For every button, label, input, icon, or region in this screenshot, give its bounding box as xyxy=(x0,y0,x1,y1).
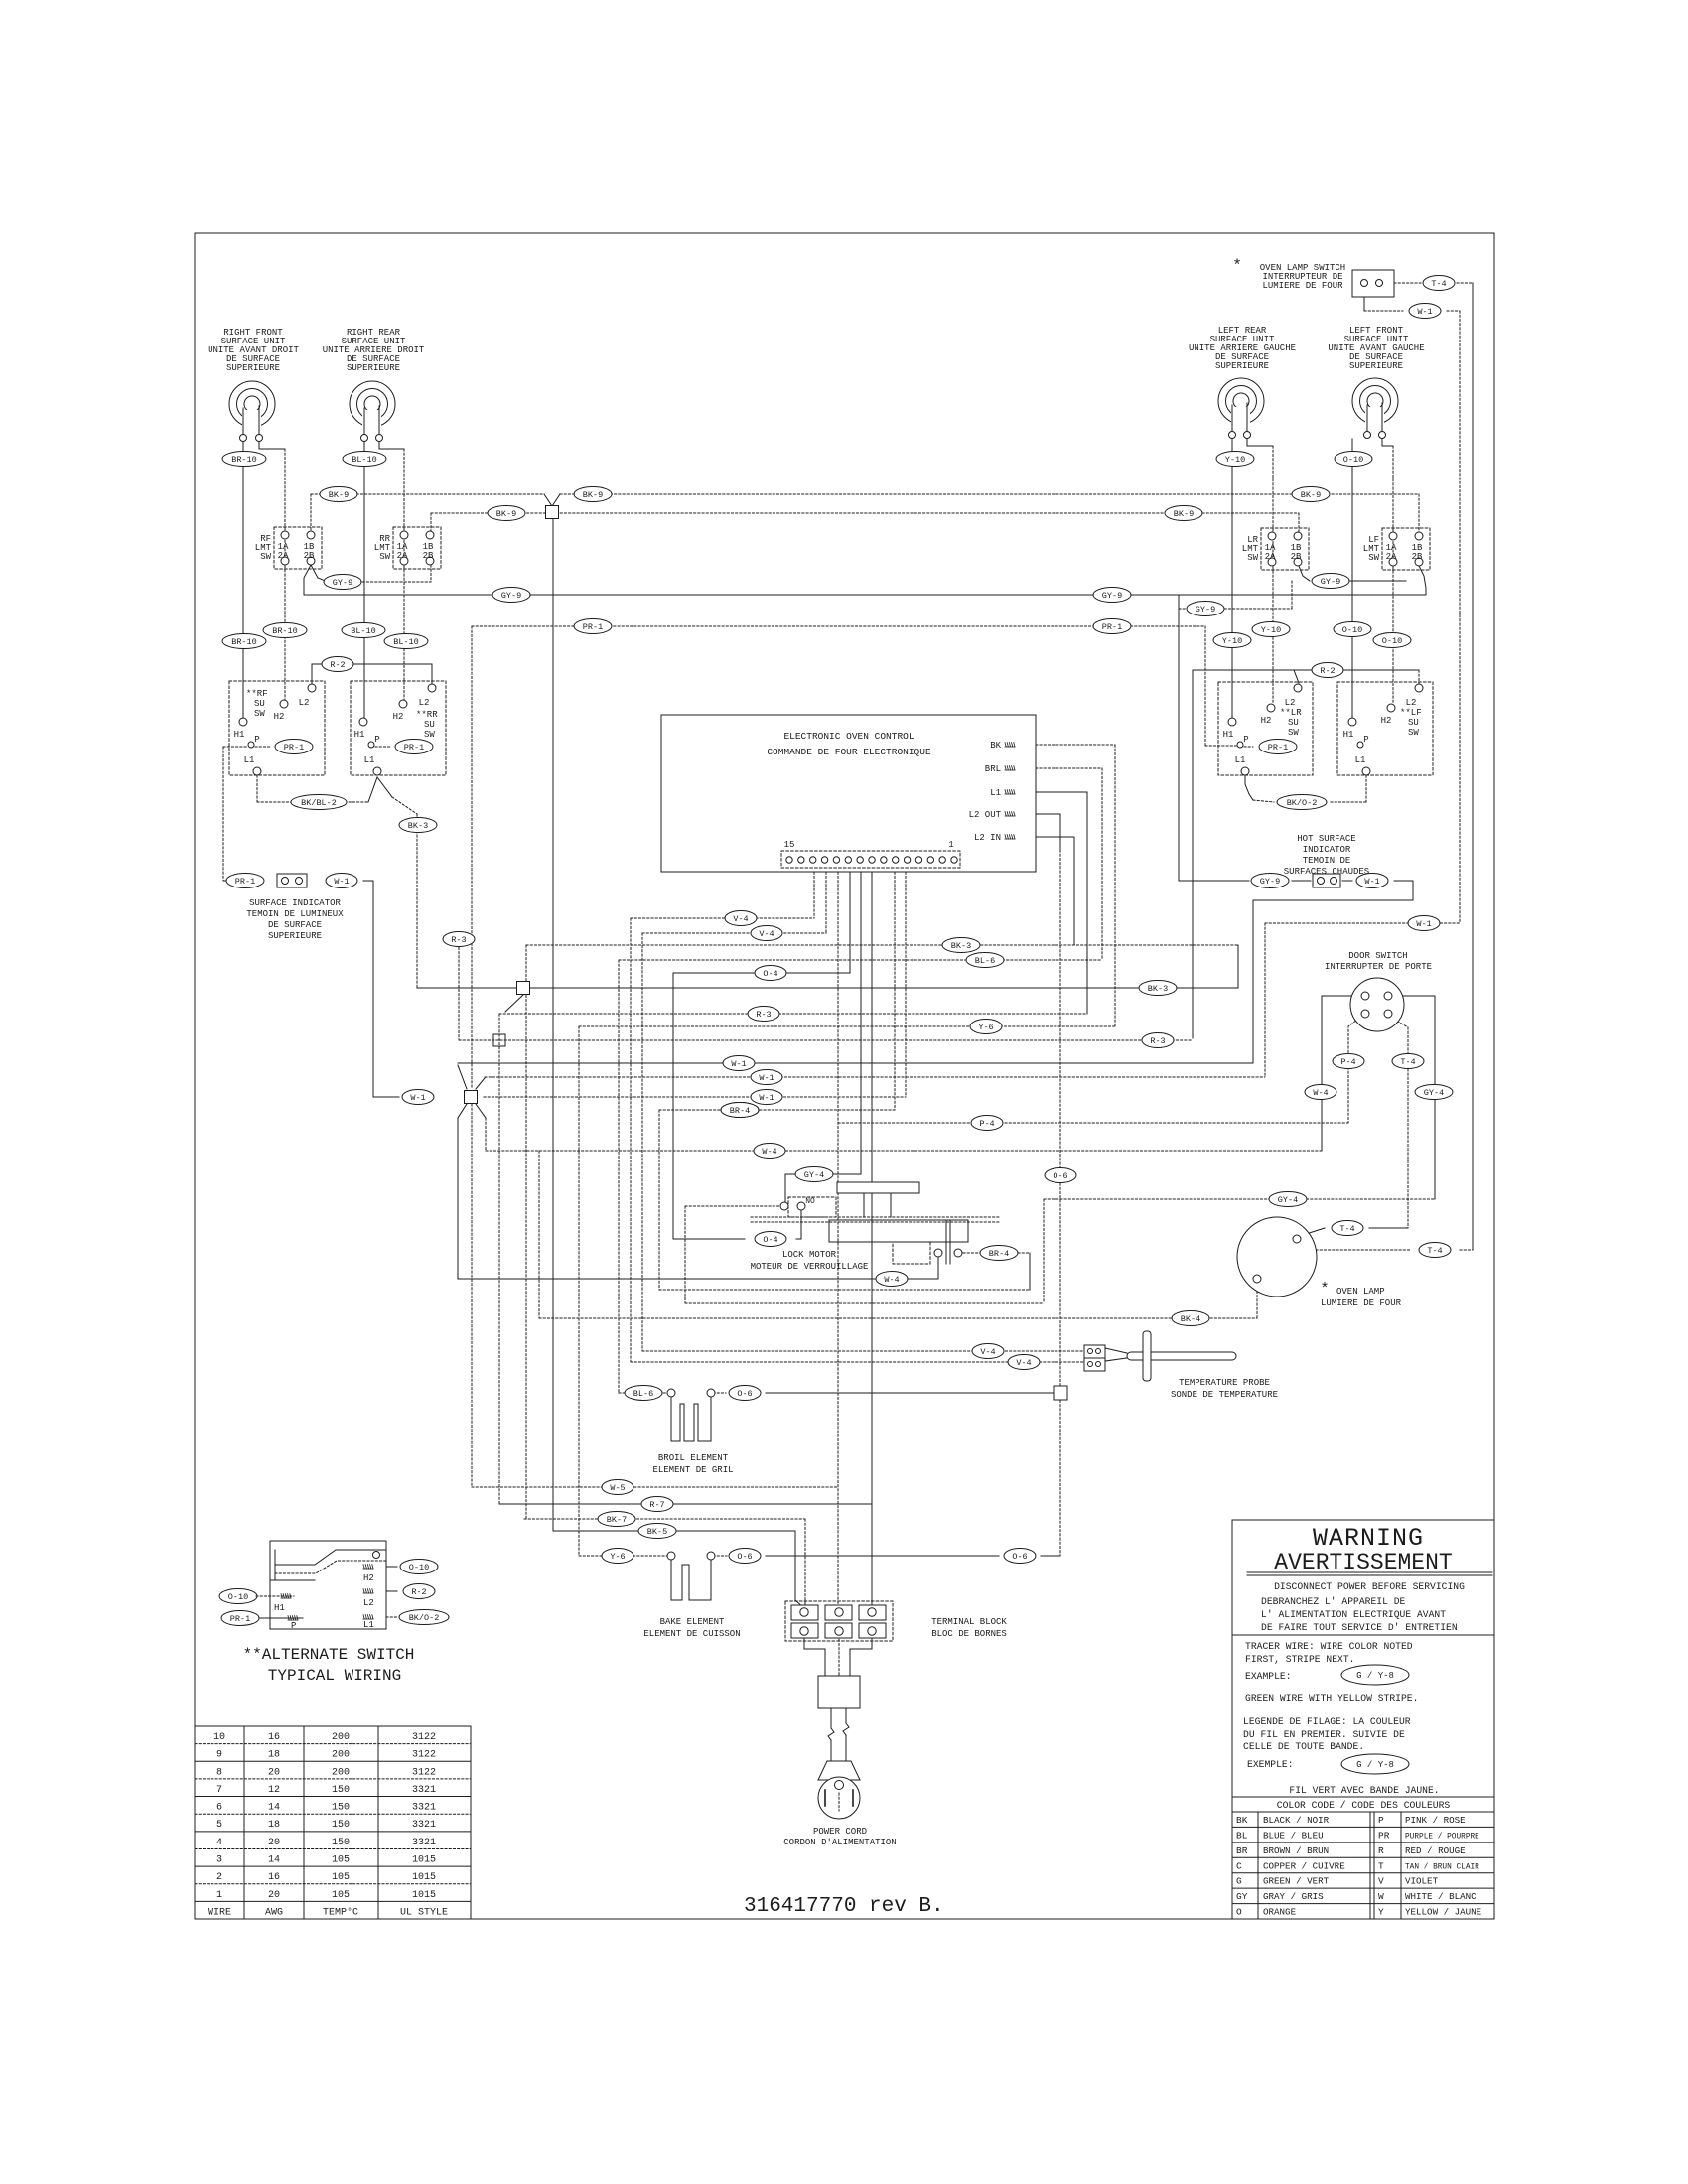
svg-text:ELEMENT DE CUISSON: ELEMENT DE CUISSON xyxy=(643,1629,740,1639)
svg-text:INDICATOR: INDICATOR xyxy=(1303,845,1351,855)
svg-text:TEMOIN DE: TEMOIN DE xyxy=(1303,856,1351,866)
ovals bottom rows xyxy=(602,1480,633,1495)
svg-text:GY-9: GY-9 xyxy=(333,578,352,588)
svg-text:BK/O-2: BK/O-2 xyxy=(409,1613,440,1623)
wire EOC pin L2 IN xyxy=(1019,836,1074,838)
wire O-4 at lock motor xyxy=(673,1238,745,1240)
oval BK-9 b xyxy=(574,487,612,502)
oval BR-10 c xyxy=(222,634,266,649)
svg-text:G: G xyxy=(1236,1876,1242,1887)
svg-text:SW: SW xyxy=(254,709,265,719)
svg-text:1015: 1015 xyxy=(412,1890,436,1901)
svg-text:SUPERIEURE: SUPERIEURE xyxy=(1215,361,1269,371)
oval GY-9 b xyxy=(492,588,530,603)
svg-text:3122: 3122 xyxy=(412,1750,436,1761)
svg-text:L1: L1 xyxy=(1355,755,1366,765)
svg-text:16: 16 xyxy=(268,1872,280,1883)
svg-text:2B: 2B xyxy=(423,551,434,561)
svg-text:R-2: R-2 xyxy=(330,660,345,670)
svg-text:200: 200 xyxy=(332,1732,350,1743)
svg-text:3321: 3321 xyxy=(412,1785,436,1796)
svg-text:W-1: W-1 xyxy=(1364,877,1379,887)
svg-text:BK-9: BK-9 xyxy=(496,509,516,519)
svg-text:Y-10: Y-10 xyxy=(1261,625,1281,635)
svg-text:P-4: P-4 xyxy=(979,1119,994,1129)
LR limit switch xyxy=(1261,528,1309,570)
svg-text:PR-1: PR-1 xyxy=(583,622,603,632)
svg-text:GREEN WIRE WITH YELLOW STRIPE.: GREEN WIRE WITH YELLOW STRIPE. xyxy=(1245,1693,1418,1704)
svg-text:3321: 3321 xyxy=(412,1838,436,1848)
alternate switch legend xyxy=(270,1541,386,1629)
svg-text:BR-4: BR-4 xyxy=(989,1249,1009,1259)
svg-text:Y-10: Y-10 xyxy=(1222,636,1242,646)
svg-text:V: V xyxy=(1378,1876,1384,1887)
oval GY-9 a xyxy=(324,575,361,590)
svg-text:YELLOW / JAUNE: YELLOW / JAUNE xyxy=(1405,1907,1482,1918)
svg-text:P: P xyxy=(291,1621,296,1631)
wire W-4 solid row to lock motor xyxy=(458,1278,938,1280)
svg-text:W-1: W-1 xyxy=(1416,919,1431,929)
svg-text:BR-4: BR-4 xyxy=(730,1106,750,1116)
svg-text:BK: BK xyxy=(1236,1815,1248,1826)
svg-text:P-4: P-4 xyxy=(1340,1057,1355,1067)
svg-text:NO: NO xyxy=(805,1197,815,1206)
svg-text:**RR: **RR xyxy=(416,710,438,720)
wire BK-4 row from oven lamp xyxy=(1256,1283,1258,1318)
wire gauge table xyxy=(195,1726,471,1919)
svg-text:14: 14 xyxy=(268,1854,280,1865)
svg-text:P: P xyxy=(254,735,259,745)
svg-text:FIRST, STRIPE NEXT.: FIRST, STRIPE NEXT. xyxy=(1245,1654,1354,1665)
svg-text:**LR: **LR xyxy=(1280,708,1302,718)
svg-text:TRACER WIRE: WIRE COLOR NOTED: TRACER WIRE: WIRE COLOR NOTED xyxy=(1245,1641,1413,1652)
svg-text:2B: 2B xyxy=(1412,552,1423,562)
bake element xyxy=(602,1549,633,1564)
svg-text:316417770 rev B.: 316417770 rev B. xyxy=(744,1895,944,1918)
oval GY-4 row xyxy=(1269,1192,1307,1207)
svg-text:DE SURFACE: DE SURFACE xyxy=(268,920,322,930)
svg-text:TERMINAL BLOCK: TERMINAL BLOCK xyxy=(931,1617,1007,1627)
svg-text:R-3: R-3 xyxy=(756,1010,771,1020)
oval O-4 lock xyxy=(755,1232,786,1247)
svg-text:200: 200 xyxy=(332,1750,350,1761)
svg-text:R-3: R-3 xyxy=(451,935,466,945)
lock motor M1 xyxy=(837,1182,919,1193)
wire W-1 dotted row mid xyxy=(485,1076,1265,1078)
svg-text:O-10: O-10 xyxy=(1343,455,1363,465)
wire W-1 right chain via hot surface indicator xyxy=(1252,900,1254,1063)
svg-text:WARNING: WARNING xyxy=(1313,1524,1424,1553)
oval BK-9 c xyxy=(1292,487,1330,502)
oval BK/O-2 alt xyxy=(399,1610,449,1625)
wire W-5 row xyxy=(472,1486,838,1488)
svg-text:150: 150 xyxy=(332,1785,350,1796)
svg-text:2A: 2A xyxy=(278,551,289,561)
svg-text:O: O xyxy=(1236,1907,1242,1918)
oval BK/BL-2 xyxy=(291,795,347,810)
svg-text:BK-3: BK-3 xyxy=(951,941,971,951)
oval T-4 door xyxy=(1392,1054,1424,1069)
svg-text:W-1: W-1 xyxy=(334,877,349,887)
oval BK-9 e xyxy=(1165,506,1202,521)
oval O-10 alt left xyxy=(219,1589,257,1604)
svg-text:W-1: W-1 xyxy=(1417,307,1432,317)
temperature probe xyxy=(972,1344,1004,1359)
svg-text:H1: H1 xyxy=(274,1603,285,1613)
svg-text:GY-4: GY-4 xyxy=(1278,1195,1298,1205)
wire GY-4 to lock motor xyxy=(785,1173,861,1175)
svg-text:W-1: W-1 xyxy=(759,1093,774,1103)
svg-text:TEMP°C: TEMP°C xyxy=(323,1906,358,1918)
svg-text:18: 18 xyxy=(268,1750,280,1761)
svg-text:TEMPERATURE PROBE: TEMPERATURE PROBE xyxy=(1179,1378,1270,1388)
svg-text:T-4: T-4 xyxy=(1400,1057,1415,1067)
wire terminal block to power cord xyxy=(803,1635,805,1649)
oval PR-1 in RF box xyxy=(275,740,313,754)
oval Y-10 c xyxy=(1213,633,1251,648)
svg-text:L1: L1 xyxy=(364,755,375,765)
svg-text:DEBRANCHEZ L' APPAREIL DE: DEBRANCHEZ L' APPAREIL DE xyxy=(1261,1596,1406,1607)
svg-text:PR: PR xyxy=(1378,1830,1390,1841)
svg-text:OVEN LAMP: OVEN LAMP xyxy=(1336,1287,1385,1297)
svg-text:BR-10: BR-10 xyxy=(272,626,298,636)
svg-text:DE FAIRE TOUT SERVICE D' ENTRE: DE FAIRE TOUT SERVICE D' ENTRETIEN xyxy=(1261,1622,1458,1633)
wire BR-4 row xyxy=(659,1109,895,1111)
svg-text:5: 5 xyxy=(216,1820,222,1831)
svg-text:SW: SW xyxy=(260,552,271,562)
wire EOC connector drops xyxy=(813,868,815,918)
svg-text:TAN / BRUN CLAIR: TAN / BRUN CLAIR xyxy=(1405,1863,1479,1871)
svg-text:GY-9: GY-9 xyxy=(1102,591,1122,601)
svg-text:SUPERIEURE: SUPERIEURE xyxy=(226,363,280,373)
svg-text:GRAY / GRIS: GRAY / GRIS xyxy=(1263,1891,1324,1902)
svg-text:L2: L2 xyxy=(299,698,310,708)
svg-text:O-10: O-10 xyxy=(1342,625,1362,635)
svg-text:L2: L2 xyxy=(419,698,430,708)
wire R-3 row upper xyxy=(499,1013,1087,1015)
EOC connector strip pins 15-1 xyxy=(781,851,960,868)
svg-text:DU FIL EN PREMIER. SUIVIE DE: DU FIL EN PREMIER. SUIVIE DE xyxy=(1243,1729,1405,1740)
svg-text:WIRE: WIRE xyxy=(208,1907,231,1918)
svg-text:2: 2 xyxy=(216,1872,222,1883)
svg-text:L1: L1 xyxy=(990,788,1001,798)
svg-text:SW: SW xyxy=(1408,728,1419,738)
svg-text:COPPER / CUIVRE: COPPER / CUIVRE xyxy=(1263,1860,1345,1871)
wire BK-3 dotted row xyxy=(526,944,1238,946)
svg-text:PR-1: PR-1 xyxy=(1102,622,1122,632)
wire W-4 dotted row xyxy=(486,1150,1322,1152)
lock motor dashed enclosure xyxy=(684,1206,686,1303)
oval R-3 hanging xyxy=(443,932,475,947)
svg-text:BK-9: BK-9 xyxy=(1301,490,1321,500)
wire PR-1 net xyxy=(472,625,1205,627)
svg-text:105: 105 xyxy=(332,1872,350,1883)
svg-text:O-6: O-6 xyxy=(1012,1552,1027,1562)
svg-text:BL-10: BL-10 xyxy=(393,637,419,647)
svg-text:1: 1 xyxy=(948,840,953,850)
svg-text:CORDON D'ALIMENTATION: CORDON D'ALIMENTATION xyxy=(783,1838,896,1847)
svg-text:PR-1: PR-1 xyxy=(1268,743,1288,752)
oval G/Y-8 english xyxy=(1341,1665,1409,1685)
svg-text:**ALTERNATE SWITCH: **ALTERNATE SWITCH xyxy=(243,1646,415,1664)
svg-text:W-5: W-5 xyxy=(610,1483,625,1493)
wire W-1 junction bowtie xyxy=(465,1091,478,1104)
svg-text:20: 20 xyxy=(268,1890,280,1901)
svg-text:BK-3: BK-3 xyxy=(1148,984,1168,994)
oval O-10 xyxy=(1335,452,1372,467)
svg-text:RED / ROUGE: RED / ROUGE xyxy=(1405,1845,1466,1856)
svg-text:LOCK MOTOR: LOCK MOTOR xyxy=(782,1250,837,1260)
wire Y-6 row xyxy=(579,1025,1115,1027)
oval O-6 right xyxy=(1004,1549,1036,1564)
wire BR-4 return loop at lock motor xyxy=(963,1252,980,1254)
svg-text:BK/BL-2: BK/BL-2 xyxy=(301,798,337,808)
terminal block TB1 xyxy=(785,1601,893,1641)
junction BK-3 xyxy=(517,982,530,995)
oval BK-4 xyxy=(1172,1311,1209,1326)
svg-text:SU: SU xyxy=(1408,718,1419,728)
oval PR-1 a xyxy=(574,619,612,634)
svg-text:V-4: V-4 xyxy=(759,929,774,939)
svg-text:150: 150 xyxy=(332,1803,350,1814)
svg-text:V-4: V-4 xyxy=(733,914,748,924)
wire oven lamp switch W-1 xyxy=(1363,297,1365,311)
svg-text:BL: BL xyxy=(1236,1830,1248,1841)
wire V-4 pair to temperature probe xyxy=(631,917,814,919)
svg-text:4: 4 xyxy=(216,1838,222,1848)
svg-text:14: 14 xyxy=(268,1803,280,1814)
svg-text:P: P xyxy=(1243,735,1248,745)
svg-text:BK: BK xyxy=(990,741,1001,751)
svg-text:*: * xyxy=(1232,257,1242,275)
wire EOC pin BRL xyxy=(1019,767,1102,769)
svg-text:BK-9: BK-9 xyxy=(583,490,603,500)
svg-text:O-10: O-10 xyxy=(409,1563,429,1572)
RF surface switch box xyxy=(229,681,325,775)
oval BR-10 b xyxy=(263,623,307,638)
power cord xyxy=(818,1676,860,1708)
oval O-10 b xyxy=(1334,622,1371,637)
svg-text:105: 105 xyxy=(332,1890,350,1901)
svg-text:SUPERIEURE: SUPERIEURE xyxy=(1349,361,1403,371)
oval Y-10 xyxy=(1216,452,1254,467)
oval BK-3 upper xyxy=(399,818,437,833)
broil element xyxy=(625,1386,662,1401)
svg-text:L1: L1 xyxy=(1235,755,1246,765)
svg-text:COLOR CODE / CODE DES COULEURS: COLOR CODE / CODE DES COULEURS xyxy=(1277,1800,1451,1811)
oval BK-9 a xyxy=(320,487,357,502)
svg-text:W-4: W-4 xyxy=(762,1147,776,1157)
wire W-1 solid row xyxy=(458,1062,1253,1064)
svg-text:150: 150 xyxy=(332,1820,350,1831)
surface indicator xyxy=(226,874,264,888)
wire BK-3 long horizontal xyxy=(417,987,1238,989)
oval GY-9 c xyxy=(1093,588,1131,603)
LF surface switch box xyxy=(1337,682,1433,775)
svg-text:PR-1: PR-1 xyxy=(404,743,424,752)
svg-text:BR: BR xyxy=(1236,1845,1248,1856)
svg-text:P: P xyxy=(1378,1815,1384,1826)
wire BK-7 row xyxy=(524,1518,805,1520)
svg-text:PINK / ROSE: PINK / ROSE xyxy=(1405,1815,1466,1826)
svg-text:SU: SU xyxy=(1288,718,1299,728)
svg-text:BLOC DE BORNES: BLOC DE BORNES xyxy=(931,1629,1007,1639)
svg-text:3321: 3321 xyxy=(412,1803,436,1814)
svg-text:BROIL ELEMENT: BROIL ELEMENT xyxy=(658,1453,729,1463)
wire coil leads LR xyxy=(1231,439,1233,718)
svg-text:P: P xyxy=(374,735,379,745)
wire Y-6 / O-6 bottom row xyxy=(579,1555,669,1557)
svg-text:O-6: O-6 xyxy=(1053,1171,1067,1181)
svg-text:P: P xyxy=(1363,735,1368,745)
ovals center rows xyxy=(725,911,757,926)
svg-text:W-1: W-1 xyxy=(410,1093,425,1103)
wire BK-5 row xyxy=(553,1530,795,1532)
oval P-4 door xyxy=(1333,1054,1364,1069)
svg-text:SW: SW xyxy=(1368,553,1379,563)
svg-text:LUMIERE DE FOUR: LUMIERE DE FOUR xyxy=(1321,1298,1402,1308)
wire O-6 broil row xyxy=(619,1392,628,1394)
svg-text:TEMOIN DE LUMINEUX: TEMOIN DE LUMINEUX xyxy=(246,909,344,919)
svg-text:**RF: **RF xyxy=(246,689,268,699)
wire R-3 row lower xyxy=(458,939,460,1040)
svg-text:BK-3: BK-3 xyxy=(408,821,428,831)
LR surface switch box xyxy=(1218,682,1313,775)
svg-text:PURPLE / POURPRE: PURPLE / POURPRE xyxy=(1405,1833,1479,1841)
svg-text:L1: L1 xyxy=(363,1620,374,1630)
svg-text:105: 105 xyxy=(332,1854,350,1865)
junction O-6 xyxy=(1054,1386,1067,1400)
svg-text:SUPERIEURE: SUPERIEURE xyxy=(347,363,400,373)
wire EOC pin L1 xyxy=(1019,791,1087,793)
svg-text:T-4: T-4 xyxy=(1339,1224,1354,1234)
svg-text:SW: SW xyxy=(1288,728,1299,738)
svg-text:EXEMPLE:: EXEMPLE: xyxy=(1247,1759,1294,1770)
oval BK-9 d xyxy=(488,506,525,521)
oval GY-9 d xyxy=(1187,602,1224,616)
wire EOC pin BK xyxy=(1019,744,1115,746)
svg-text:ORANGE: ORANGE xyxy=(1263,1907,1297,1918)
oval BL-10 xyxy=(343,452,386,467)
oval G/Y-8 french xyxy=(1341,1754,1409,1774)
svg-text:BK-9: BK-9 xyxy=(329,490,349,500)
wire EOC pin L2 OUT / O-6 vertical xyxy=(1019,813,1060,815)
svg-text:PR-1: PR-1 xyxy=(230,1614,250,1624)
svg-text:3122: 3122 xyxy=(412,1732,436,1743)
warning box xyxy=(1232,1520,1494,1919)
svg-text:Y: Y xyxy=(1378,1907,1384,1918)
svg-text:GY-9: GY-9 xyxy=(1321,577,1340,587)
svg-text:VIOLET: VIOLET xyxy=(1405,1876,1439,1887)
svg-text:W: W xyxy=(1378,1891,1384,1902)
svg-text:GREEN / VERT: GREEN / VERT xyxy=(1263,1876,1330,1887)
svg-text:DISCONNECT POWER BEFORE SERVIC: DISCONNECT POWER BEFORE SERVICING xyxy=(1274,1581,1465,1592)
wire W-1 dotted top right row xyxy=(1265,922,1460,924)
svg-text:L2 IN: L2 IN xyxy=(974,833,1001,843)
svg-text:BK-5: BK-5 xyxy=(647,1527,667,1537)
svg-text:TYPICAL WIRING: TYPICAL WIRING xyxy=(268,1667,401,1685)
wire BL-6 row to broil element xyxy=(619,959,1102,961)
svg-text:H2: H2 xyxy=(393,712,404,722)
svg-text:GY-4: GY-4 xyxy=(1424,1088,1444,1098)
svg-text:GY-9: GY-9 xyxy=(501,591,521,601)
svg-text:1: 1 xyxy=(216,1890,222,1901)
oval PR-1 in RR box xyxy=(395,740,433,754)
svg-text:Y-6: Y-6 xyxy=(610,1552,625,1562)
svg-text:200: 200 xyxy=(332,1767,350,1778)
wire GY-4 row to door switch xyxy=(1044,1198,1435,1200)
junction BK-9 xyxy=(546,506,559,519)
oval O-10 alt right xyxy=(400,1560,438,1574)
svg-text:16: 16 xyxy=(268,1732,280,1743)
svg-text:W-4: W-4 xyxy=(884,1275,899,1285)
svg-text:R-7: R-7 xyxy=(649,1500,664,1510)
svg-text:O-6: O-6 xyxy=(737,1552,752,1562)
svg-text:12: 12 xyxy=(268,1785,280,1796)
wire T-4 oven lamp row xyxy=(1300,1228,1325,1236)
RF limit switch xyxy=(274,527,322,569)
svg-text:BAKE ELEMENT: BAKE ELEMENT xyxy=(660,1617,725,1627)
svg-text:2B: 2B xyxy=(304,551,315,561)
oval GY-4 door xyxy=(1415,1085,1453,1100)
RR limit switch xyxy=(393,527,441,569)
svg-text:COMMANDE DE FOUR ELECTRONIQUE: COMMANDE DE FOUR ELECTRONIQUE xyxy=(767,747,931,757)
svg-text:7: 7 xyxy=(216,1785,222,1796)
svg-text:2A: 2A xyxy=(1386,552,1397,562)
oval BK/O-2 xyxy=(1277,795,1327,810)
svg-text:BL-10: BL-10 xyxy=(351,626,376,636)
electronic oven control U1 xyxy=(661,715,1036,872)
wire coil leads LF xyxy=(1351,439,1353,718)
svg-text:SUPERIEURE: SUPERIEURE xyxy=(268,931,322,941)
svg-text:H1: H1 xyxy=(354,730,365,740)
RR surface switch box xyxy=(351,681,446,775)
svg-text:Y-6: Y-6 xyxy=(978,1023,993,1032)
svg-text:W-1: W-1 xyxy=(731,1059,746,1069)
oval W-1 top xyxy=(1409,304,1441,319)
wire coil leads RF xyxy=(242,442,244,718)
svg-text:H2: H2 xyxy=(274,712,285,722)
svg-text:BL-10: BL-10 xyxy=(352,455,377,465)
svg-text:V-4: V-4 xyxy=(1016,1358,1031,1368)
svg-text:L' ALIMENTATION ELECTRIQUE AVA: L' ALIMENTATION ELECTRIQUE AVANT xyxy=(1261,1609,1446,1620)
oval R-2 right xyxy=(1312,663,1343,678)
svg-text:9: 9 xyxy=(216,1750,222,1761)
svg-text:BK-7: BK-7 xyxy=(607,1515,627,1525)
wire surface indicator feed PR-1/W-1 xyxy=(223,746,248,748)
svg-text:3122: 3122 xyxy=(412,1767,436,1778)
wire oven lamp switch T-4 xyxy=(1394,282,1421,284)
svg-text:2A: 2A xyxy=(1265,552,1276,562)
svg-text:L1: L1 xyxy=(244,755,255,765)
svg-text:20: 20 xyxy=(268,1838,280,1848)
oval R-2 left xyxy=(322,657,353,672)
svg-text:SURFACE INDICATOR: SURFACE INDICATOR xyxy=(249,898,341,908)
svg-text:H2: H2 xyxy=(1381,716,1392,726)
svg-text:SW: SW xyxy=(424,730,435,740)
wire R-7 row xyxy=(499,1503,872,1505)
svg-text:T: T xyxy=(1378,1860,1384,1871)
svg-text:SONDE DE TEMPERATURE: SONDE DE TEMPERATURE xyxy=(1171,1390,1278,1400)
svg-text:C: C xyxy=(1236,1860,1242,1871)
svg-text:**LF: **LF xyxy=(1400,708,1422,718)
svg-text:LEGENDE DE FILAGE: LA COULEUR: LEGENDE DE FILAGE: LA COULEUR xyxy=(1243,1716,1411,1727)
svg-text:3: 3 xyxy=(216,1854,222,1865)
svg-text:*: * xyxy=(1320,1281,1329,1297)
wire BK-9 net (limit switches 1B) xyxy=(311,493,544,495)
svg-text:BL-6: BL-6 xyxy=(975,956,995,966)
wire BK-9 long vertical to BK-5 xyxy=(552,519,554,1531)
